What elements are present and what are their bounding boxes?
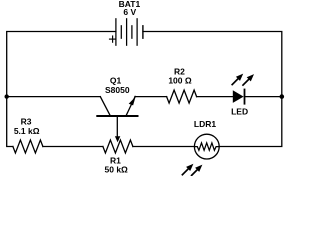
svg-text:LDR1: LDR1 — [194, 119, 216, 129]
svg-text:50 kΩ: 50 kΩ — [105, 165, 129, 175]
svg-text:R3: R3 — [21, 117, 32, 127]
svg-text:LED: LED — [231, 106, 248, 116]
svg-text:6 V: 6 V — [123, 7, 136, 17]
svg-text:5.1 kΩ: 5.1 kΩ — [14, 126, 40, 136]
svg-text:100 Ω: 100 Ω — [168, 75, 192, 85]
svg-text:S8050: S8050 — [105, 85, 130, 95]
